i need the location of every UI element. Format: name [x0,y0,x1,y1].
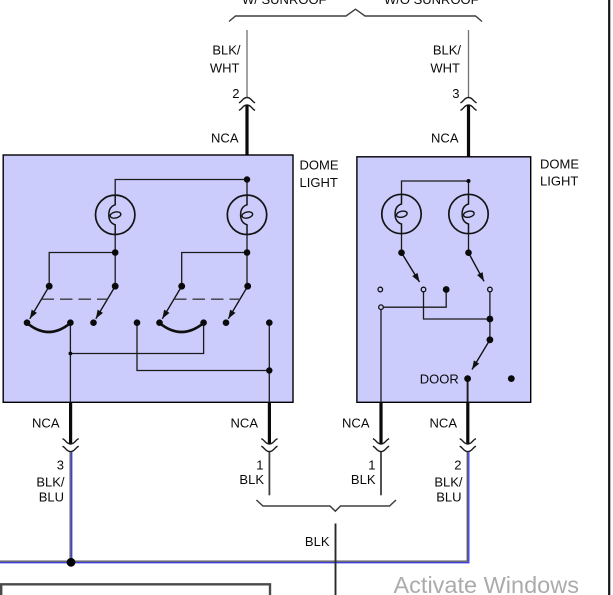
open contact circles right box [378,287,492,309]
wire feed to bulb R1 [402,181,469,194]
svg-text:1: 1 [368,458,375,473]
wire NCA thick into right dome light [467,105,470,181]
svg-text:NCA: NCA [342,416,370,431]
switch blade R2 with arrow [469,253,485,282]
wire bulb R1 bottom [401,234,403,253]
wire left contact to box bottom (pin 1) [380,307,382,402]
svg-text:W/O SUNROOF: W/O SUNROOF [384,0,479,7]
svg-text:BLK/: BLK/ [36,475,65,490]
right box nodes [398,179,515,382]
contact B2 [156,319,163,326]
svg-text:BLK: BLK [351,472,376,487]
svg-text:NCA: NCA [231,416,259,431]
wire contact B3 down and across [137,323,269,371]
bulb L2 (dome lamp, left box) [227,195,266,234]
pivot D [244,283,251,290]
svg-text:NCA: NCA [32,416,60,431]
bottom component box (cut off) [1,584,270,595]
contact open 4 [379,305,384,310]
node: feed junction [244,176,250,182]
wire BLK/BLU two-tone to splice [69,452,71,562]
wire bulb R2 bottom [468,234,470,253]
contact B1 [134,319,141,326]
svg-text:2: 2 [454,458,461,473]
wire BLK thin to brace [380,452,382,495]
svg-text:BLK/: BLK/ [433,43,462,58]
connector C2 (inline connector, pin 3) [460,98,476,103]
pivot A [46,283,53,290]
wire contact B2 down and across to contact D2 [70,323,203,354]
svg-text:BLK/: BLK/ [434,475,463,490]
dome light module box (w/ sunroof) [3,155,293,402]
svg-text:NCA: NCA [430,416,458,431]
bulb R1 (dome lamp, right box) [382,194,421,233]
connector C5 (pin 1) [373,439,389,444]
svg-text:NCA: NCA [431,131,459,146]
wire feed down to bulb 2 [246,180,248,196]
svg-text:DOME: DOME [300,157,339,172]
switch blade R1 with arrow [402,253,420,282]
wire NCA thick into left dome light [245,105,248,179]
node: door blade pivot [487,336,494,343]
svg-text:BLU: BLU [436,490,461,505]
svg-text:LIGHT: LIGHT [300,175,338,190]
svg-text:DOME: DOME [540,156,579,171]
node: small junction [69,352,73,356]
wire to switch pivot B [114,253,116,287]
contact A2 [67,319,74,326]
switch blade C with arrow [162,286,181,319]
pivot C [178,283,185,290]
node: right feed junction [467,179,471,183]
switch blade A with arrow [30,286,49,319]
wire pin2 thick below right box [466,402,469,443]
contact B4 [223,319,230,326]
contact B5 [266,319,273,326]
dome light module box (w/o sunroof) [357,157,531,402]
wire contact D3 down to box bottom (pin 1) [268,323,270,403]
svg-text:LIGHT: LIGHT [540,173,578,188]
left box internal wiring [49,180,269,403]
wire pin1 thick below right box [379,402,382,443]
svg-text:1: 1 [256,458,263,473]
bulb R2 (dome lamp, right box) [449,194,488,233]
wire BLK/WHT thin, w/ sunroof column [246,30,248,98]
node: junction y319 [487,316,494,323]
svg-text:BLU: BLU [39,490,64,505]
connector C3 (pin 3) [63,439,79,444]
svg-text:NCA: NCA [211,131,239,146]
wire BLK thin to brace [268,452,270,495]
svg-text:3: 3 [57,458,64,473]
svg-text:2: 2 [232,86,239,101]
contact open 2 [421,287,426,292]
wire feed to bulb 1 [115,180,247,196]
node: bulb2 out [244,249,251,256]
bulb L1 (dome lamp, left box) [96,195,135,234]
svg-text:DOOR: DOOR [420,372,459,387]
door switch blade with arrow [472,340,490,370]
node: bulb1 out [112,249,119,256]
wire BLK/WHT thin, w/o sunroof column [468,30,470,98]
wire to switch pivot A [49,253,115,287]
svg-text:Activate Windows: Activate Windows [394,572,579,595]
wire feed to bulb R2 [468,181,470,194]
switch blade B with arrow [96,286,115,319]
mechanical link dashed (switch 1) [42,298,108,300]
wire pin3 thick below left box [69,402,72,443]
splice node (junction dot on ground run) [67,558,76,567]
node: bulb R1 out [398,249,405,256]
mechanical link dashed (switch 2) [174,298,240,300]
wire to switch pivot C [182,253,247,287]
page border right [608,0,610,595]
contact ON (unlabeled) [508,375,515,382]
connector C4 (pin 1) [261,439,277,444]
wire to switch pivot D [246,253,248,287]
pivot B [112,283,119,290]
svg-text:BLK/: BLK/ [212,43,241,58]
wire bulb2 bottom [246,235,248,253]
contact arc switch 2 (thick) [160,323,204,332]
wire door switch chain [424,290,490,320]
connector C6 (pin 2) [460,439,476,444]
contact arc switch 1 (thick) [27,323,70,332]
contact A1 [24,319,31,326]
wire switch output to box bottom (pin 3) [69,354,71,403]
wire contact mid to left contact [381,290,446,308]
svg-text:WHT: WHT [430,60,460,75]
svg-text:BLK: BLK [305,534,330,549]
wire pin1 thick below left box [268,402,271,443]
node: bulb R2 out [465,249,472,256]
brace top (groups both sunroof options) [229,9,482,21]
right box internal wiring [381,181,490,402]
switch blade D with arrow [228,286,247,319]
wire door contact to box bottom (pin 2) [467,379,469,403]
connector C1 (inline connector, pin 2) [239,98,255,103]
wire bulb1 bottom [114,235,116,253]
contact A3 [90,319,97,326]
node: lower junction [266,367,272,373]
contact mid (filled) [443,286,450,293]
svg-text:BLK: BLK [239,472,264,487]
brace bottom (joins the two BLK wires) [256,500,396,511]
contact open 3 [488,287,493,292]
contact open 1 [378,287,383,292]
contact DOOR [464,375,471,382]
contact B3 [200,319,207,326]
svg-text:W/ SUNROOF: W/ SUNROOF [242,0,327,7]
svg-text:WHT: WHT [210,60,240,75]
junction dots left box [24,176,273,373]
wire BLK combined down [335,524,337,595]
svg-text:3: 3 [452,86,459,101]
wire BLK/BLU two-tone down and across to splice [0,452,467,561]
